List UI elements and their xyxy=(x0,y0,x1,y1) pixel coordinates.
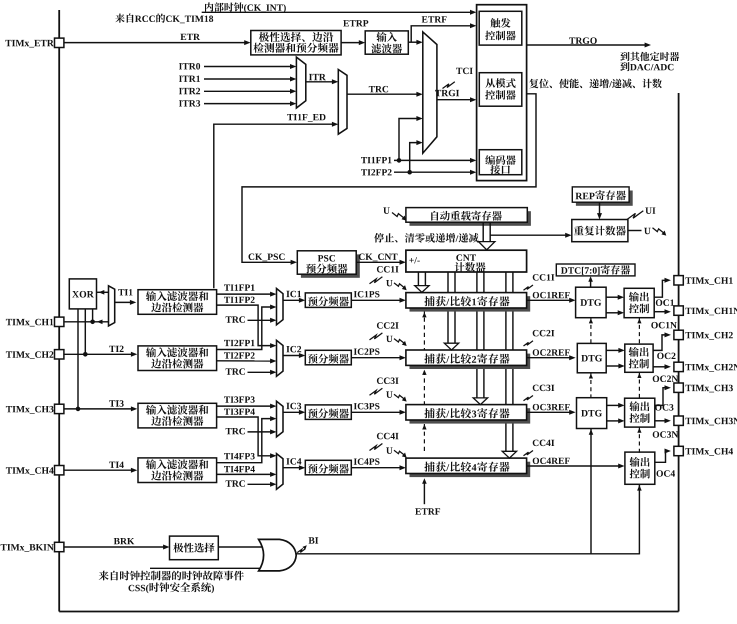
label IC2 xyxy=(286,346,301,353)
wire TRC ch2 xyxy=(248,371,274,373)
wire OC4 xyxy=(655,451,668,462)
block: controller outer box xyxy=(477,5,527,181)
wire OC1REF xyxy=(527,299,572,301)
wire CK_CNT xyxy=(356,261,402,263)
mux: input capture selector ch4 xyxy=(277,454,284,490)
wire ETRP xyxy=(341,42,362,44)
label ETR xyxy=(180,34,200,40)
wire TRGO xyxy=(527,44,648,46)
label CC1I left xyxy=(377,266,399,273)
label CK_CNT xyxy=(359,254,398,262)
label ITR0 xyxy=(179,63,200,70)
zigzag U ch3 into register xyxy=(394,394,404,399)
wire IC1 xyxy=(283,299,302,301)
wire: output control chain dashed xyxy=(638,318,640,344)
label 到DAC/ADC xyxy=(620,62,673,71)
label CC3I left xyxy=(377,378,399,385)
arrowhead ETRF dashed up xyxy=(422,370,426,375)
block: output control ch2 输出控制 xyxy=(625,344,653,372)
block: DTC register DTC[7:0]寄存器 xyxy=(556,264,635,276)
label ITR2 xyxy=(179,88,200,94)
wire ETR xyxy=(64,42,247,44)
label TI4FP3 xyxy=(224,453,255,459)
block: prescaler ch1 预分频器 xyxy=(305,293,351,308)
zigzag U ch2 into register xyxy=(394,339,404,344)
zigzag CC1I left xyxy=(370,277,383,284)
pin TIMx_CH2 xyxy=(55,350,64,359)
wire TI1FP1 to TRGI mux xyxy=(399,119,420,161)
mux: input capture selector ch1 xyxy=(277,289,284,325)
label U ch2 xyxy=(386,336,393,342)
junction CH2 xyxy=(83,352,88,357)
label U ch4 xyxy=(386,447,393,453)
wire REP to repetition counter xyxy=(599,202,601,216)
wire OC3N xyxy=(655,420,668,422)
block: input filter 输入滤波器 xyxy=(365,31,408,54)
label OC2 xyxy=(657,353,675,360)
label CC4I left xyxy=(377,433,399,440)
label 来自时钟控制器的时钟故障事件 xyxy=(99,571,244,581)
wire DTG to output control ch2 lower xyxy=(606,365,621,367)
pin TIMx_BKIN xyxy=(55,542,64,551)
label BI xyxy=(309,537,319,543)
wire: brake to output control ch4 solid xyxy=(638,484,640,554)
zigzag CC2I right xyxy=(524,341,534,346)
block: prescaler ch3 预分频器 xyxy=(305,405,351,420)
wire TI2FP2 ch2 to mux xyxy=(217,360,274,362)
wire TRC ch4 xyxy=(248,483,274,485)
wire BI output xyxy=(296,553,639,555)
label IC4 xyxy=(286,458,301,465)
wire BRK xyxy=(64,546,166,548)
label IC4PS xyxy=(354,458,380,464)
label TRC ch4 xyxy=(226,480,245,487)
wire DTG to output control ch3 upper xyxy=(607,404,622,406)
zigzag CC3I left xyxy=(370,388,383,395)
wire DTG to output control ch1 lower xyxy=(606,312,621,314)
label TI1FP1 top xyxy=(361,157,392,163)
label TI3FP4 xyxy=(224,409,255,415)
block: DTG ch2 xyxy=(577,343,606,372)
zigzag U into ARR xyxy=(392,213,404,219)
junction TI2FP2 xyxy=(407,170,412,175)
wire: bottom boundary xyxy=(59,611,678,613)
wire: right boundary rail xyxy=(678,93,680,612)
wire: left boundary rail xyxy=(58,10,60,612)
mux: input capture selector ch3 xyxy=(277,401,284,437)
block: XOR xyxy=(69,279,96,309)
label ITR1 xyxy=(179,76,200,82)
wire TRGI xyxy=(437,99,473,101)
wire ITR0 xyxy=(204,66,293,68)
block: capture/compare register ch2 捕获/比较2寄存器 xyxy=(410,354,531,369)
label BRK xyxy=(114,538,135,544)
wire TRC ch3 xyxy=(248,431,274,433)
wire ETRF dashed distribution xyxy=(423,310,425,454)
wire CH3 to filter xyxy=(64,408,134,410)
wire IC4 xyxy=(283,467,302,469)
pin TIMx_CH1N xyxy=(674,306,683,315)
block: auto-reload register 自动重载寄存器 xyxy=(410,211,531,226)
block: DTG ch1 xyxy=(576,287,607,318)
label TI4 xyxy=(109,462,124,468)
wire ITR2 xyxy=(204,90,293,92)
label IC2PS xyxy=(354,348,380,354)
wire ITR3 xyxy=(204,103,293,105)
zigzag CC3I right xyxy=(524,396,534,401)
pin TIMx_CH1 xyxy=(55,317,64,326)
label TI3FP3 xyxy=(224,396,255,402)
wire TI4FP4 ch4 to mux xyxy=(217,473,274,475)
wire XOR input from CH1 xyxy=(92,309,94,322)
junction TI1FP1 xyxy=(397,158,402,163)
zigzag U ch1 into register xyxy=(394,283,404,288)
mux: ITR selector xyxy=(296,57,305,108)
label OC4REF xyxy=(533,458,570,464)
pin TIMx_ETR xyxy=(55,38,64,47)
label TRC xyxy=(369,86,388,93)
block: output control ch4 输出控制 xyxy=(625,452,655,484)
pin TIMx_CH4 xyxy=(674,446,683,455)
arrowhead: CNT bus into capture/compare register xyxy=(502,451,516,458)
label CC1I right xyxy=(533,274,555,281)
label U right xyxy=(644,228,651,234)
wire DTG to DTC register xyxy=(590,278,592,288)
wire TI1FP1 ch1 to mux xyxy=(217,293,274,295)
wire polarity to OR gate xyxy=(218,546,263,548)
pin TIMx_CH3 xyxy=(55,404,64,413)
pin TIMx_CH2 xyxy=(674,330,683,339)
label TRC ch1 xyxy=(226,316,245,323)
wire DTG to output control ch1 upper xyxy=(606,296,621,298)
mux: TRGI selector xyxy=(423,32,437,153)
label 停止、清零或递增/递减 xyxy=(374,233,478,243)
zigzag CC4I left xyxy=(370,444,383,451)
label TI2FP1 xyxy=(224,340,255,346)
wire CK_INT (internal clock) xyxy=(202,11,474,13)
pin TIMx_CH2N xyxy=(674,362,683,371)
junction CH3 xyxy=(76,407,81,412)
block: polarity selection 极性选择 xyxy=(170,536,219,560)
block: trigger controller 触发控制器 xyxy=(479,11,522,45)
label 复位、使能、递增/递减、计数 xyxy=(529,79,662,89)
zigzag CC2I left xyxy=(370,333,383,340)
label ITR xyxy=(309,74,326,80)
label IC3 xyxy=(286,403,301,410)
arrowhead ETRF dashed up xyxy=(422,424,426,429)
block: repetition counter 重复计数器 xyxy=(572,220,628,242)
label ITR3 xyxy=(179,100,200,107)
wire ITR1 xyxy=(204,78,293,80)
label OC3 xyxy=(655,404,673,411)
label CSS(时钟安全系统) xyxy=(129,582,215,593)
label OC1REF xyxy=(533,292,570,298)
wire U out of repetition counter xyxy=(628,230,642,232)
arrowhead ETRF dashed up xyxy=(422,312,426,317)
label OC4 xyxy=(657,470,676,477)
wire OC3REF xyxy=(527,411,572,413)
wire TI4FP3 ch4 crossing up to ch3 mux xyxy=(217,419,274,463)
label 来自RCC的CK_TIM18 xyxy=(115,14,213,24)
wire OC3 xyxy=(655,388,668,406)
wire OC2REF xyxy=(527,357,572,359)
wire: CNT to capture/compare double-line bus xyxy=(417,272,419,286)
wire IC1PS xyxy=(351,299,402,301)
wire TI2FP2 to TRGI mux xyxy=(410,143,420,173)
wire ITR xyxy=(306,81,335,83)
arrowhead: CNT bus into capture/compare register xyxy=(473,398,487,405)
wire TI1FP1 to slave controller xyxy=(394,159,473,161)
mux: TI1 selector xyxy=(109,286,115,326)
label IC1PS xyxy=(354,291,380,297)
block: capture/compare register ch4 捕获/比较4寄存器 xyxy=(410,462,531,477)
label IC1 xyxy=(286,291,301,298)
wire IC3PS xyxy=(351,411,402,413)
wire: CNT to capture/compare double-line bus xyxy=(505,272,507,451)
wire TI1 xyxy=(115,301,133,303)
block: output control ch3 输出控制 xyxy=(625,398,655,427)
block: polarity selection edge detector prescaler 极性选择、边沿检测器和预分频器 xyxy=(251,31,341,55)
zigzag BI xyxy=(297,549,305,553)
mux: TRC selector xyxy=(338,70,347,135)
label CC2I right xyxy=(533,330,555,337)
label UI xyxy=(645,208,655,214)
label TRC ch2 xyxy=(226,368,245,375)
wire DTG to output control ch3 lower xyxy=(607,420,622,422)
label ETRF bottom xyxy=(415,508,440,514)
block: REP register REP寄存器 xyxy=(576,191,633,206)
block: input filter and edge detector ch2 输入滤波器和边沿检测器 xyxy=(138,346,217,371)
label U at ARR xyxy=(383,207,390,213)
wire TI2FP1 ch2 crossing up to ch1 mux xyxy=(217,307,274,350)
pin TIMx_CH3N xyxy=(674,416,683,425)
label TI1FP1 xyxy=(224,284,255,290)
wire OC2N xyxy=(653,366,667,368)
label U ch3 xyxy=(386,391,393,397)
mux: input capture selector ch2 xyxy=(277,340,284,376)
label CC3I right xyxy=(533,385,555,392)
arrowhead: CNT bus into capture/compare register xyxy=(415,286,429,293)
wire OC1 xyxy=(654,280,667,297)
label TI1 xyxy=(118,289,132,295)
block: DTG ch3 xyxy=(577,398,607,429)
wire XOR to TI1 mux xyxy=(97,291,109,293)
pin TIMx_CH1 xyxy=(674,276,683,285)
label CK_PSC xyxy=(249,254,285,262)
label U ch1 xyxy=(386,280,393,286)
zigzag UI xyxy=(627,211,643,220)
pin TIMx_CH3 xyxy=(674,383,683,392)
wire: ARR to CNT double line arrow xyxy=(482,222,484,242)
zigzag U right xyxy=(653,228,665,233)
label OC1 xyxy=(656,299,674,306)
block: encoder interface 编码器接口 xyxy=(479,150,522,175)
zigzag CC4I right xyxy=(524,451,534,456)
wire TI1F_ED from CH1 filter xyxy=(214,124,335,288)
zigzag TCI xyxy=(443,82,455,89)
label TI2FP2 xyxy=(224,352,255,358)
wire OC2 xyxy=(653,335,667,351)
label TCI xyxy=(456,68,473,75)
wire IC2PS xyxy=(351,357,402,359)
label CC2I left xyxy=(377,322,399,329)
block: slave mode controller 从模式控制器 xyxy=(479,73,522,107)
wire TRC to TRGI mux xyxy=(347,93,420,95)
label 内部时钟(CK_INT) xyxy=(205,2,286,12)
block: input filter and edge detector ch3 输入滤波器和边沿检测器 xyxy=(138,403,217,428)
label TI3 xyxy=(109,400,124,407)
label TRC ch3 xyxy=(226,428,245,435)
label 到其他定时器 xyxy=(620,52,679,61)
wire OC4REF to output control ch4 xyxy=(527,465,622,467)
wire CSS clock failure event xyxy=(150,567,266,569)
wire: CNT to capture/compare double-line bus xyxy=(447,272,449,343)
block: CNT counter CNT计数器 xyxy=(406,250,527,272)
wire: CNT to capture/compare double-line bus xyxy=(476,272,478,398)
block: prescaler ch4 预分频器 xyxy=(305,460,351,475)
wire XOR input from CH3 xyxy=(77,309,79,409)
label TI2 xyxy=(109,346,123,352)
wire TI1FP2 ch1 crossing down to ch2 mux xyxy=(217,305,274,346)
label TI1FP2 xyxy=(224,297,255,303)
label TRGO xyxy=(569,37,597,44)
wire TRC ch1 xyxy=(248,319,274,321)
block: capture/compare register ch1 捕获/比较1寄存器 xyxy=(410,296,531,311)
wire CH1 to TI1 mux xyxy=(64,321,109,323)
label TI1F_ED xyxy=(287,114,325,122)
label OC2REF xyxy=(533,349,570,355)
label OC3REF xyxy=(533,404,570,410)
wire IC4PS xyxy=(351,467,402,469)
block: prescaler ch2 预分频器 xyxy=(305,350,351,365)
wire: DTG chain dashed xyxy=(590,318,592,344)
zigzag CC1I right xyxy=(524,285,534,290)
wire OC1N xyxy=(654,311,667,313)
label ETRP xyxy=(343,20,368,26)
block: PSC prescaler PSC预分频器 xyxy=(301,254,360,277)
zigzag U ch4 into register xyxy=(394,450,404,455)
label CC4I right xyxy=(533,440,555,447)
wire CH4 to filter xyxy=(64,469,134,471)
wire U to repetition counter xyxy=(490,234,568,236)
label TI2FP2 top xyxy=(361,169,392,175)
junction CH1 xyxy=(90,320,95,325)
wire TI3FP3 ch3 to mux xyxy=(217,405,274,407)
wire: brake to DTG ch3 solid xyxy=(590,429,592,555)
wire CK_PSC from slave mode controller xyxy=(242,94,536,262)
wire TI3FP4 ch3 crossing down to ch4 mux xyxy=(217,417,274,456)
block: output control ch1 输出控制 xyxy=(624,288,654,317)
label IC3PS xyxy=(354,403,380,409)
pin TIMx_CH4 xyxy=(55,466,64,475)
wire XOR input from CH2 xyxy=(84,309,86,354)
wire ETRF up to trigger controller xyxy=(411,26,473,42)
gate: OR (brake sources) xyxy=(259,539,297,571)
wire DTG to output control ch2 upper xyxy=(606,349,621,351)
block: capture/compare register ch3 捕获/比较3寄存器 xyxy=(410,408,531,423)
label OC2N xyxy=(653,376,679,383)
wire CH2 to filter xyxy=(64,353,134,355)
wire ETRF to mux xyxy=(408,41,419,43)
block: input filter and edge detector ch4 输入滤波器和边沿检测器 xyxy=(138,458,217,483)
label OC1N xyxy=(651,322,677,329)
label OC3N xyxy=(653,431,679,438)
label ETRF xyxy=(422,16,447,22)
wire ETRF bottom segment with arrow into CC4 xyxy=(423,481,425,504)
arrowhead: CNT bus into capture/compare register xyxy=(444,343,458,350)
wire TI2FP2 to slave controller xyxy=(394,171,473,173)
block: input filter and edge detector ch1 输入滤波器和边沿检测器 xyxy=(138,290,217,315)
label TI4FP4 xyxy=(224,466,255,472)
label TRGI xyxy=(435,90,459,97)
wire IC3 xyxy=(283,411,302,413)
wire IC2 xyxy=(283,355,302,357)
